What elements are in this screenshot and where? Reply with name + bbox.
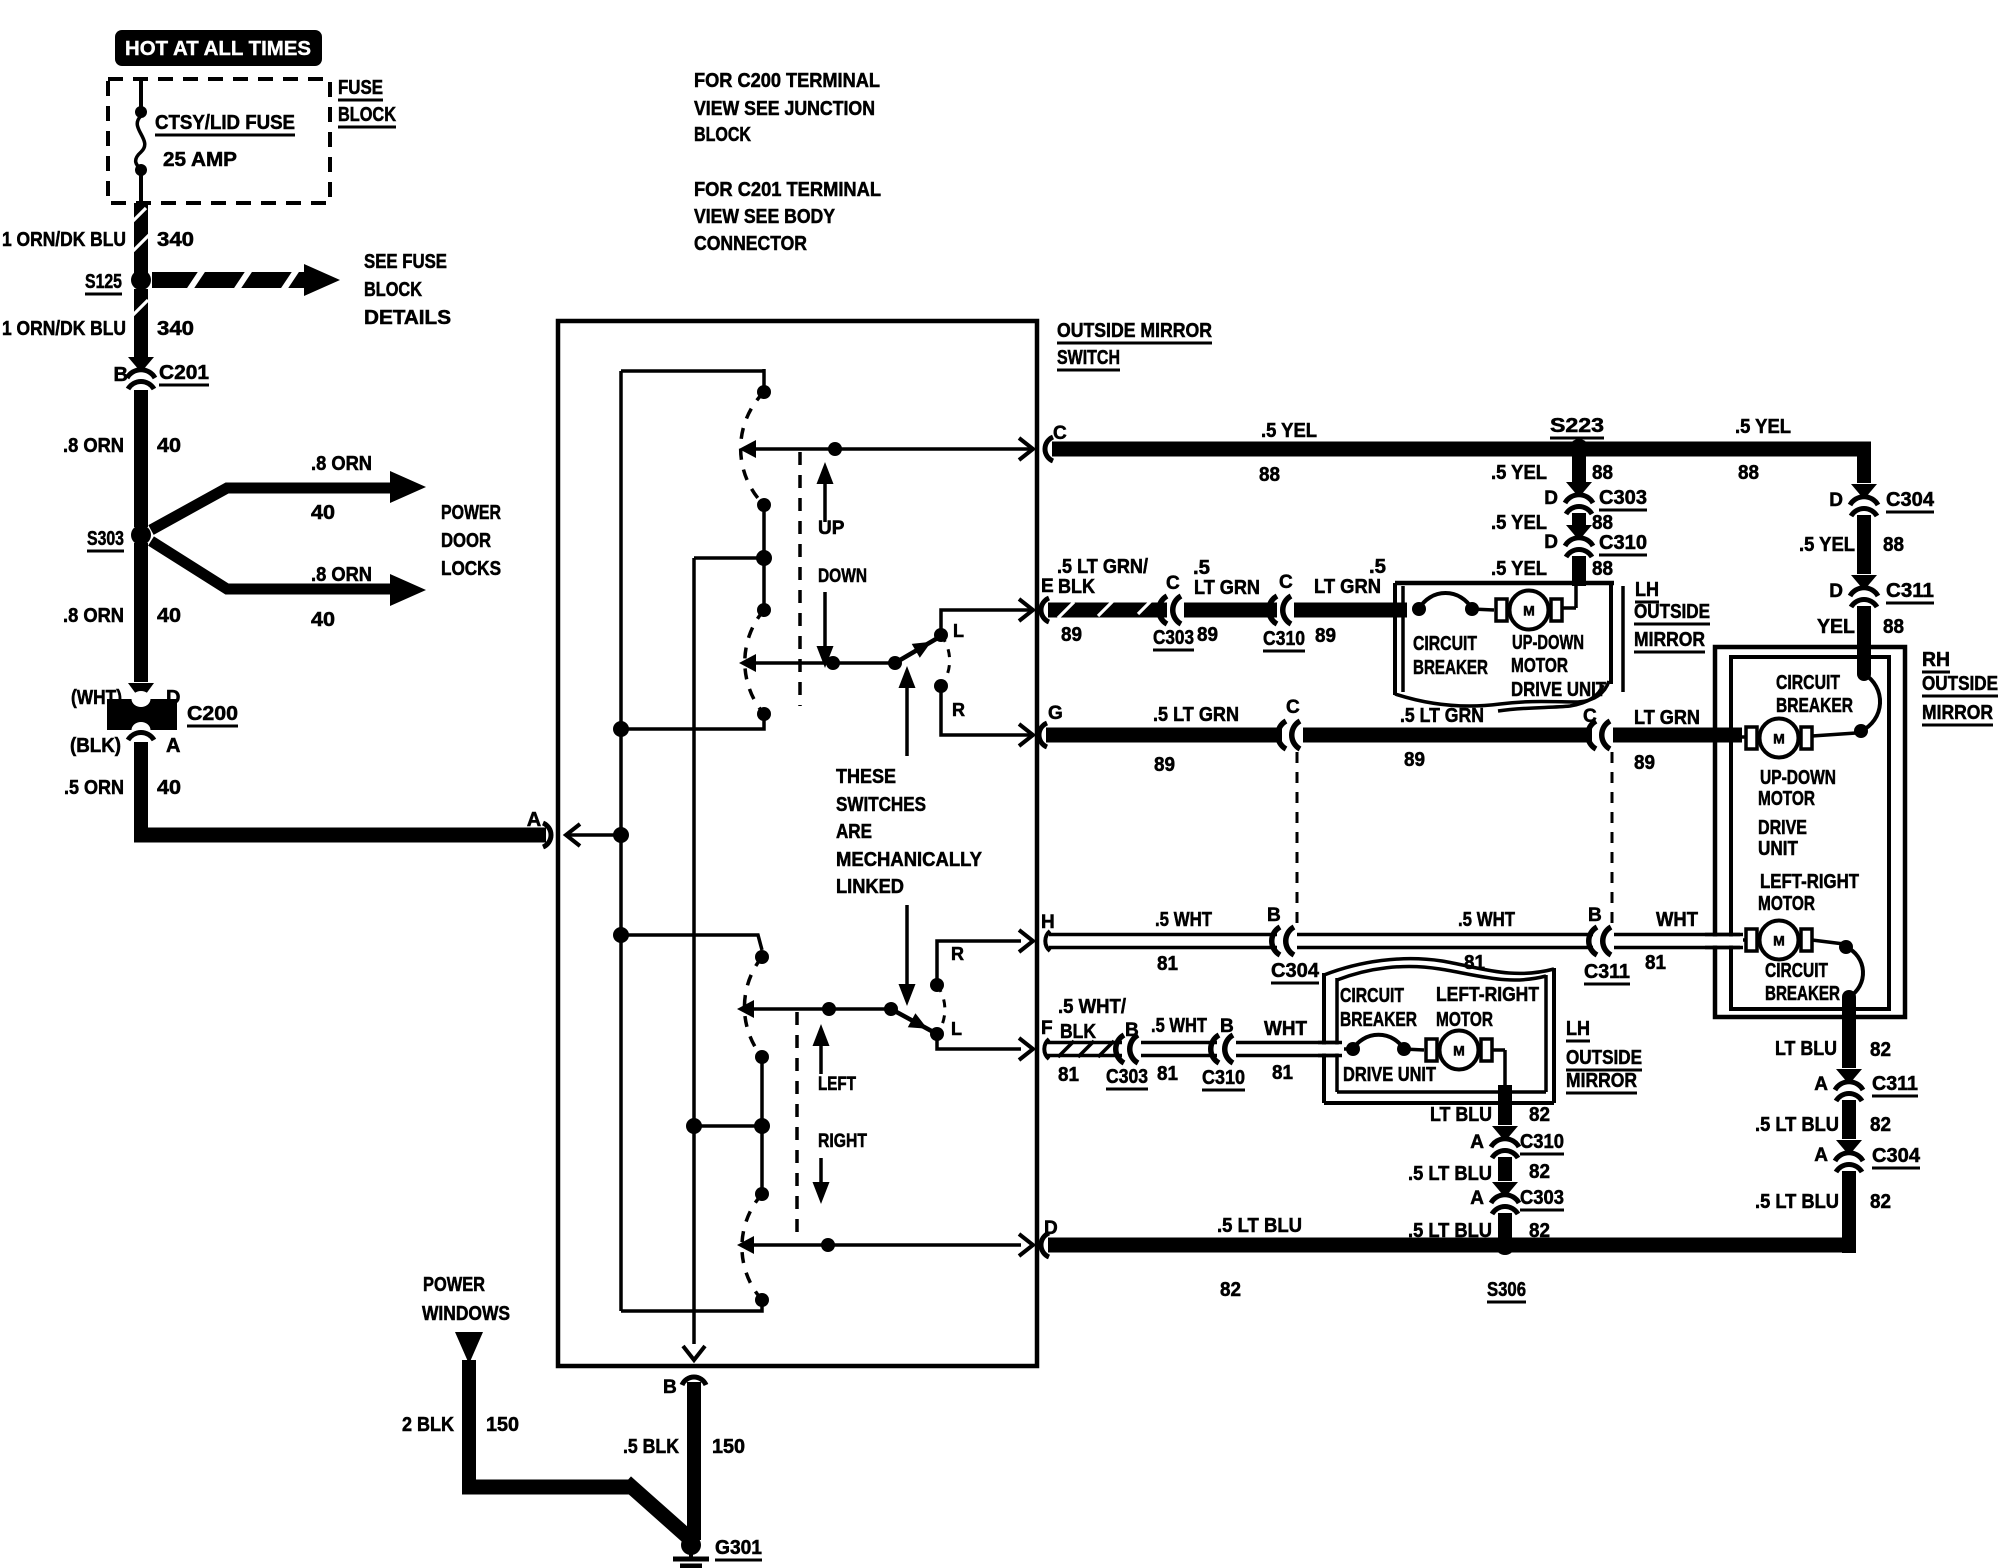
svg-text:.5 BLK: .5 BLK bbox=[623, 1436, 679, 1458]
svg-text:BREAKER: BREAKER bbox=[1413, 657, 1488, 679]
svg-text:82: 82 bbox=[1529, 1104, 1550, 1126]
svg-text:BREAKER: BREAKER bbox=[1776, 695, 1853, 717]
svg-text:RH: RH bbox=[1922, 649, 1950, 671]
connector C304 terminal C on G row bbox=[1278, 721, 1286, 749]
svg-text:VIEW SEE JUNCTION: VIEW SEE JUNCTION bbox=[694, 98, 875, 120]
svg-text:.8 ORN: .8 ORN bbox=[63, 605, 124, 627]
wire .5 LT GRN C304 to C311 on G row bbox=[1303, 728, 1592, 743]
svg-text:.5 YEL: .5 YEL bbox=[1491, 512, 1547, 534]
svg-text:M: M bbox=[1773, 933, 1785, 949]
svg-text:G301: G301 bbox=[715, 1537, 762, 1559]
svg-text:MOTOR: MOTOR bbox=[1436, 1009, 1493, 1031]
wire .5 YEL C304 to C311 bbox=[1857, 515, 1871, 574]
svg-text:B: B bbox=[1220, 1016, 1234, 1037]
switch left-right wiper travel arc upper bbox=[744, 957, 762, 1057]
svg-text:D: D bbox=[1544, 532, 1558, 553]
LH up-down motor M bbox=[1496, 599, 1507, 621]
svg-text:88: 88 bbox=[1883, 616, 1904, 638]
svg-text:M: M bbox=[1773, 731, 1785, 747]
wire .5 LT GRN C303 to C310 bbox=[1184, 603, 1277, 618]
RH up-down motor M bbox=[1746, 727, 1757, 749]
power feed label HOT AT ALL TIMES bbox=[115, 30, 322, 66]
svg-text:L: L bbox=[951, 1019, 962, 1039]
svg-text:SWITCH: SWITCH bbox=[1057, 347, 1120, 369]
svg-text:C311: C311 bbox=[1872, 1073, 1918, 1095]
switch contact R upper section bbox=[941, 635, 950, 686]
svg-text:.5 WHT: .5 WHT bbox=[1458, 909, 1515, 931]
svg-text:R: R bbox=[951, 944, 964, 964]
svg-text:CONNECTOR: CONNECTOR bbox=[694, 233, 807, 255]
switch left-right wiper lever bbox=[737, 1000, 754, 1018]
connector C201 terminal B bbox=[128, 357, 154, 370]
svg-text:RIGHT: RIGHT bbox=[818, 1131, 867, 1152]
connector C311 terminal D vertical right bbox=[1851, 575, 1877, 588]
svg-text:LOCKS: LOCKS bbox=[441, 558, 501, 580]
svg-text:LINKED: LINKED bbox=[836, 876, 904, 898]
switch up-down wiper travel arc upper bbox=[741, 392, 764, 505]
svg-text:A: A bbox=[166, 735, 180, 757]
svg-text:40: 40 bbox=[311, 502, 335, 524]
svg-text:HOT AT ALL TIMES: HOT AT ALL TIMES bbox=[125, 38, 311, 60]
RH outside mirror drive unit box bbox=[1715, 647, 1905, 1017]
svg-text:89: 89 bbox=[1315, 625, 1336, 647]
svg-text:1 ORN/DK BLU: 1 ORN/DK BLU bbox=[2, 318, 126, 340]
svg-text:MIRROR: MIRROR bbox=[1922, 702, 1993, 724]
svg-text:LT BLU: LT BLU bbox=[1775, 1038, 1837, 1060]
svg-text:LEFT: LEFT bbox=[818, 1074, 856, 1095]
svg-text:H: H bbox=[1041, 912, 1055, 933]
svg-text:81: 81 bbox=[1645, 952, 1666, 974]
splice S223 bbox=[1569, 439, 1589, 459]
svg-text:MECHANICALLY: MECHANICALLY bbox=[836, 849, 983, 871]
mechanical link dashes lower bbox=[795, 1012, 799, 1235]
wire LT GRN C311 to RH drive unit bbox=[1613, 728, 1742, 743]
svg-text:82: 82 bbox=[1220, 1279, 1241, 1301]
svg-text:.5 LT GRN: .5 LT GRN bbox=[1153, 704, 1239, 726]
svg-text:A: A bbox=[527, 809, 541, 831]
svg-text:(BLK): (BLK) bbox=[70, 735, 121, 757]
svg-text:B: B bbox=[1588, 905, 1602, 926]
svg-text:DRIVE UNIT: DRIVE UNIT bbox=[1511, 679, 1606, 701]
connector C311 terminal C on G row bbox=[1588, 721, 1596, 749]
connector C310 terminal D vertical bbox=[1566, 525, 1592, 538]
svg-text:.5 LT BLU: .5 LT BLU bbox=[1217, 1215, 1302, 1237]
svg-text:40: 40 bbox=[157, 435, 181, 457]
svg-text:C304: C304 bbox=[1886, 489, 1935, 511]
connector C311 terminal B on H row bbox=[1589, 927, 1597, 955]
svg-text:FOR C200 TERMINAL: FOR C200 TERMINAL bbox=[694, 70, 880, 92]
svg-text:LT GRN: LT GRN bbox=[1314, 576, 1381, 598]
svg-text:C310: C310 bbox=[1263, 628, 1305, 650]
fuse block dashed box bbox=[108, 79, 330, 203]
connector C304 terminal B on H row bbox=[1272, 927, 1280, 955]
wire .8 ORN 40 S303 to C200 bbox=[134, 543, 148, 682]
svg-text:UP-DOWN: UP-DOWN bbox=[1512, 632, 1584, 654]
connector C303 terminal D vertical bbox=[1566, 482, 1592, 495]
wire .5 YEL S223 drop to C303 bbox=[1572, 449, 1586, 482]
svg-text:150: 150 bbox=[486, 1414, 519, 1436]
switch up-down wiper lever bbox=[739, 654, 756, 672]
wire .5 LT BLU C303 to S306 bbox=[1498, 1213, 1512, 1245]
wire mid bus to left-right mid contact bbox=[694, 1124, 762, 1128]
connector C303 terminal C bbox=[1159, 596, 1167, 624]
svg-text:C311: C311 bbox=[1584, 961, 1630, 983]
wire .5 LT GRN/BLK terminal E to C303 bbox=[1041, 598, 1049, 622]
wire .5 WHT C304 to C311 on H row bbox=[1297, 933, 1593, 937]
svg-text:YEL: YEL bbox=[1817, 616, 1855, 638]
wire LT BLU RH drive unit to C311 bbox=[1842, 997, 1856, 1068]
RH left-right motor M bbox=[1746, 929, 1757, 951]
svg-text:82: 82 bbox=[1529, 1161, 1550, 1183]
svg-text:D: D bbox=[1829, 490, 1843, 511]
wire 1 ORN/DK BLU 340 S125 to C201 bbox=[134, 289, 148, 357]
mechanically linked pointer arrow lower bbox=[905, 905, 909, 998]
svg-text:UNIT: UNIT bbox=[1758, 838, 1798, 860]
splice S303 bbox=[131, 525, 151, 545]
svg-text:MOTOR: MOTOR bbox=[1758, 788, 1815, 810]
svg-text:.5 LT BLU: .5 LT BLU bbox=[1408, 1163, 1492, 1185]
wire .5 WHT/BLK terminal F to C303 bbox=[1044, 1039, 1049, 1059]
svg-text:BLOCK: BLOCK bbox=[364, 279, 422, 301]
wire L contact to terminal F bbox=[937, 1034, 1021, 1049]
switch left-right fixed contact top bbox=[755, 950, 769, 964]
svg-text:81: 81 bbox=[1058, 1064, 1079, 1086]
RH circuit breaker upper bbox=[1857, 667, 1871, 681]
wire WHT C311 to RH drive unit bbox=[1614, 933, 1740, 937]
svg-text:BLK: BLK bbox=[1058, 576, 1095, 598]
svg-text:.5: .5 bbox=[1193, 557, 1210, 579]
wire .5 LT BLU C304 to D row corner bbox=[1842, 1171, 1856, 1253]
connector C303 terminal A vertical bbox=[1492, 1182, 1518, 1195]
wire LT BLU LH drive unit to C310 bbox=[1498, 1085, 1512, 1125]
wire .5 LT BLU terminal D to S306 bbox=[1041, 1233, 1049, 1257]
svg-text:SWITCHES: SWITCHES bbox=[836, 794, 926, 816]
svg-text:G: G bbox=[1048, 703, 1063, 724]
svg-text:POWER: POWER bbox=[441, 502, 501, 524]
svg-text:POWER: POWER bbox=[423, 1274, 485, 1296]
mechanical link dashes upper bbox=[798, 452, 802, 706]
LH left-right circuit breaker bbox=[1346, 1042, 1360, 1056]
svg-text:.5: .5 bbox=[1369, 556, 1386, 578]
svg-text:S223: S223 bbox=[1550, 415, 1604, 437]
dashed arrow SEE FUSE BLOCK DETAILS bbox=[152, 272, 305, 288]
wire .8 ORN 40 C201 to S303 bbox=[134, 390, 148, 527]
svg-text:LEFT-RIGHT: LEFT-RIGHT bbox=[1760, 871, 1859, 893]
svg-text:DRIVE: DRIVE bbox=[1758, 817, 1807, 839]
svg-text:C303: C303 bbox=[1599, 487, 1647, 509]
svg-text:DOOR: DOOR bbox=[441, 530, 491, 552]
switch contact R lower section bbox=[930, 978, 944, 992]
svg-text:MIRROR: MIRROR bbox=[1566, 1070, 1637, 1092]
svg-text:WHT: WHT bbox=[1656, 909, 1698, 931]
svg-text:LH: LH bbox=[1566, 1018, 1590, 1040]
switch up-down contact lower bbox=[757, 603, 771, 617]
svg-text:25 AMP: 25 AMP bbox=[163, 149, 237, 171]
wire WHT passing through RH box edges bbox=[1705, 937, 1743, 946]
svg-text:E: E bbox=[1041, 576, 1054, 597]
svg-text:40: 40 bbox=[157, 777, 181, 799]
switch wiper to terminal C bbox=[739, 440, 756, 458]
arrow to power door locks upper bbox=[151, 488, 392, 530]
svg-text:.5 ORN: .5 ORN bbox=[64, 777, 124, 799]
LH left-right motor M bbox=[1426, 1039, 1437, 1061]
svg-text:BLK: BLK bbox=[1060, 1021, 1096, 1043]
arrow UP bbox=[823, 470, 827, 522]
svg-text:88: 88 bbox=[1592, 462, 1613, 484]
wire .5 LT BLU C311 to C304 bbox=[1842, 1100, 1856, 1139]
svg-text:B: B bbox=[1125, 1020, 1139, 1041]
svg-text:88: 88 bbox=[1592, 558, 1613, 580]
wire WHT passing through LH left-right box edges bbox=[1318, 1045, 1344, 1054]
svg-text:LT GRN: LT GRN bbox=[1634, 707, 1700, 729]
wire WHT C310 to LH left-right drive unit bbox=[1236, 1041, 1338, 1045]
svg-text:A: A bbox=[1814, 1074, 1828, 1095]
svg-text:82: 82 bbox=[1870, 1039, 1891, 1061]
power windows feed triangle bbox=[455, 1332, 483, 1364]
svg-text:B: B bbox=[663, 1377, 677, 1398]
wire left bus to left-right section top contact bbox=[613, 927, 629, 943]
svg-text:1 ORN/DK BLU: 1 ORN/DK BLU bbox=[2, 229, 126, 251]
svg-text:89: 89 bbox=[1197, 624, 1218, 646]
wire R contact to terminal G bbox=[941, 686, 1031, 735]
svg-text:89: 89 bbox=[1404, 749, 1425, 771]
svg-text:C310: C310 bbox=[1202, 1067, 1245, 1089]
wire internal left bus bbox=[619, 371, 623, 1311]
svg-text:C200: C200 bbox=[187, 703, 238, 725]
switch up-down contact mid bbox=[757, 498, 771, 512]
svg-text:C: C bbox=[1286, 697, 1300, 718]
connector C310 terminal C bbox=[1269, 596, 1277, 624]
connector link dashes C311 bbox=[1611, 752, 1614, 926]
svg-text:BLOCK: BLOCK bbox=[694, 124, 751, 146]
svg-text:C: C bbox=[1279, 572, 1293, 593]
svg-text:M: M bbox=[1453, 1043, 1465, 1059]
svg-text:DRIVE UNIT: DRIVE UNIT bbox=[1343, 1064, 1436, 1086]
svg-text:WHT: WHT bbox=[1264, 1018, 1307, 1040]
connector C311 terminal A vertical bbox=[1836, 1069, 1862, 1082]
svg-text:C303: C303 bbox=[1520, 1187, 1564, 1209]
svg-text:BLOCK: BLOCK bbox=[338, 104, 396, 126]
arrow to power door locks lower bbox=[151, 541, 392, 589]
switch up-down contact bottom return bbox=[757, 707, 771, 721]
svg-text:.5 LT BLU: .5 LT BLU bbox=[1755, 1191, 1839, 1213]
svg-text:CTSY/LID FUSE: CTSY/LID FUSE bbox=[155, 112, 295, 134]
svg-text:SEE FUSE: SEE FUSE bbox=[364, 251, 447, 273]
svg-text:A: A bbox=[1470, 1132, 1484, 1153]
svg-text:LH: LH bbox=[1635, 579, 1659, 601]
connector C310 terminal A vertical bbox=[1492, 1126, 1518, 1139]
svg-text:81: 81 bbox=[1157, 953, 1178, 975]
svg-text:81: 81 bbox=[1272, 1062, 1293, 1084]
fuse CTSY/LID FUSE 25 AMP bbox=[139, 79, 143, 110]
svg-text:82: 82 bbox=[1870, 1114, 1891, 1136]
wire .5 YEL terminal C to S223 bbox=[1045, 437, 1053, 461]
svg-text:81: 81 bbox=[1157, 1063, 1178, 1085]
svg-text:BREAKER: BREAKER bbox=[1340, 1009, 1417, 1031]
svg-text:BREAKER: BREAKER bbox=[1765, 983, 1840, 1005]
svg-text:M: M bbox=[1523, 603, 1535, 619]
svg-text:.5 LT GRN/: .5 LT GRN/ bbox=[1057, 556, 1148, 578]
svg-text:.5 LT BLU: .5 LT BLU bbox=[1755, 1114, 1839, 1136]
svg-text:82: 82 bbox=[1870, 1191, 1891, 1213]
svg-text:LT GRN: LT GRN bbox=[1194, 577, 1260, 599]
svg-text:89: 89 bbox=[1061, 624, 1082, 646]
wire .5 WHT C303 to C310 on F row bbox=[1141, 1041, 1217, 1045]
LH left-right motor drive unit box bbox=[1322, 973, 1326, 1103]
svg-text:OUTSIDE MIRROR: OUTSIDE MIRROR bbox=[1057, 320, 1212, 342]
svg-text:C311: C311 bbox=[1886, 580, 1934, 602]
svg-text:.5 YEL: .5 YEL bbox=[1491, 558, 1547, 580]
connector C200 bbox=[128, 683, 154, 698]
switch left-right lower contact bbox=[755, 1187, 769, 1201]
RH circuit breaker lower bbox=[1839, 940, 1853, 954]
svg-text:MOTOR: MOTOR bbox=[1758, 893, 1815, 915]
wire 2 BLK power windows to G301 bbox=[462, 1360, 476, 1494]
outside mirror switch box bbox=[558, 321, 1037, 1366]
switch up-down wiper travel arc lower bbox=[745, 610, 764, 714]
svg-text:.5 YEL: .5 YEL bbox=[1491, 462, 1547, 484]
svg-text:.8 ORN: .8 ORN bbox=[63, 435, 124, 457]
wire internal top feed bbox=[621, 369, 764, 373]
switch contact L upper section bbox=[934, 628, 948, 642]
svg-text:.8 ORN: .8 ORN bbox=[311, 564, 372, 586]
svg-text:R: R bbox=[952, 700, 965, 720]
svg-text:C: C bbox=[1166, 573, 1180, 594]
svg-text:88: 88 bbox=[1883, 534, 1904, 556]
svg-text:THESE: THESE bbox=[836, 766, 896, 788]
svg-text:DETAILS: DETAILS bbox=[364, 307, 451, 329]
connector C304 terminal D vertical right bbox=[1851, 484, 1877, 497]
svg-text:OUTSIDE: OUTSIDE bbox=[1566, 1047, 1642, 1069]
svg-text:CIRCUIT: CIRCUIT bbox=[1413, 633, 1477, 655]
arrow LEFT bbox=[819, 1032, 823, 1074]
svg-text:LT BLU: LT BLU bbox=[1430, 1104, 1492, 1126]
svg-text:88: 88 bbox=[1259, 464, 1280, 486]
svg-text:ARE: ARE bbox=[836, 821, 872, 843]
connector link dashes C304 bbox=[1296, 752, 1299, 926]
svg-text:MIRROR: MIRROR bbox=[1634, 629, 1705, 651]
svg-text:C201: C201 bbox=[159, 362, 209, 384]
mechanically linked pointer arrow upper bbox=[905, 674, 909, 756]
svg-text:B: B bbox=[1267, 905, 1281, 926]
wire .5 LT BLU C310 to C303 bbox=[1498, 1157, 1512, 1181]
svg-text:UP: UP bbox=[818, 518, 845, 539]
switch left-right mid contact bbox=[755, 1050, 769, 1064]
svg-text:.8 ORN: .8 ORN bbox=[311, 453, 372, 475]
LH up-down circuit breaker bbox=[1412, 602, 1426, 616]
wire contact mid to mid bus bbox=[694, 556, 764, 560]
switch wiper to terminal D bbox=[737, 1236, 754, 1254]
svg-text:C: C bbox=[1583, 706, 1597, 727]
wire .5 LT GRN terminal G to C304 bbox=[1039, 723, 1047, 747]
svg-text:C304: C304 bbox=[1271, 960, 1320, 982]
svg-text:C304: C304 bbox=[1872, 1145, 1921, 1167]
svg-text:S125: S125 bbox=[85, 271, 122, 293]
svg-text:L: L bbox=[953, 621, 964, 641]
wire 1 ORN/DK BLU 340 fuse to S125 bbox=[134, 203, 148, 273]
svg-text:C310: C310 bbox=[1599, 532, 1647, 554]
splice S125 bbox=[131, 270, 151, 290]
ground G301 bbox=[681, 1535, 701, 1555]
svg-text:CIRCUIT: CIRCUIT bbox=[1765, 960, 1828, 982]
svg-text:OUTSIDE: OUTSIDE bbox=[1634, 601, 1710, 623]
switch up-down section fixed contact top bbox=[757, 385, 771, 399]
svg-text:DOWN: DOWN bbox=[818, 566, 867, 587]
wire .5 YEL C303 to C310 bbox=[1572, 513, 1586, 525]
connector C310 terminal B on F row bbox=[1211, 1035, 1219, 1063]
wire terminal A to left bus bbox=[613, 827, 629, 843]
svg-text:D: D bbox=[1544, 488, 1558, 509]
wire .5 YEL C310 to LH mirror bbox=[1572, 556, 1586, 586]
svg-text:C: C bbox=[1053, 423, 1067, 444]
svg-text:B: B bbox=[114, 364, 128, 386]
svg-text:89: 89 bbox=[1154, 754, 1175, 776]
svg-text:S303: S303 bbox=[87, 528, 124, 550]
wire .5 ORN 40 C200 to switch terminal A bbox=[128, 732, 154, 740]
svg-text:.5 YEL: .5 YEL bbox=[1735, 416, 1791, 438]
svg-text:88: 88 bbox=[1592, 512, 1613, 534]
wire .5 LT BLU S306 to RH drop bbox=[1505, 1238, 1856, 1253]
svg-text:C303: C303 bbox=[1106, 1066, 1148, 1088]
svg-text:2 BLK: 2 BLK bbox=[402, 1414, 454, 1436]
svg-text:OUTSIDE: OUTSIDE bbox=[1922, 673, 1998, 695]
svg-text:S306: S306 bbox=[1487, 1279, 1526, 1301]
wire .5 WHT terminal H to C304 bbox=[1045, 931, 1050, 951]
svg-text:89: 89 bbox=[1634, 752, 1655, 774]
svg-text:40: 40 bbox=[157, 605, 181, 627]
svg-text:FUSE: FUSE bbox=[338, 77, 383, 99]
wire .5 BLK terminal B to G301 bbox=[682, 1377, 706, 1385]
wire YEL C311 to RH mirror bbox=[1857, 606, 1871, 674]
svg-text:FOR C201 TERMINAL: FOR C201 TERMINAL bbox=[694, 179, 881, 201]
wire .5 YEL S223 to corner bbox=[1579, 442, 1871, 457]
svg-text:F: F bbox=[1041, 1018, 1053, 1039]
wire L contact to terminal E bbox=[941, 610, 1031, 635]
svg-text:UP-DOWN: UP-DOWN bbox=[1760, 767, 1836, 789]
wire mid bus to terminal B bbox=[683, 1346, 705, 1360]
wire .5 YEL right drop to C304 bbox=[1857, 442, 1871, 483]
svg-text:CIRCUIT: CIRCUIT bbox=[1340, 985, 1404, 1007]
svg-text:WINDOWS: WINDOWS bbox=[422, 1303, 510, 1325]
svg-text:340: 340 bbox=[157, 318, 194, 340]
switch left-right bottom return bbox=[755, 1293, 769, 1307]
svg-text:150: 150 bbox=[712, 1436, 745, 1458]
svg-text:88: 88 bbox=[1738, 462, 1759, 484]
svg-text:.5 WHT: .5 WHT bbox=[1151, 1015, 1207, 1037]
LH up-down motor drive unit box bbox=[1393, 583, 1397, 695]
svg-text:340: 340 bbox=[157, 229, 194, 251]
svg-text:40: 40 bbox=[311, 609, 335, 631]
svg-text:.5 YEL: .5 YEL bbox=[1799, 534, 1855, 556]
svg-text:VIEW SEE BODY: VIEW SEE BODY bbox=[694, 206, 836, 228]
svg-text:.5 LT GRN: .5 LT GRN bbox=[1400, 705, 1484, 727]
wire R contact to terminal H bbox=[937, 941, 1021, 985]
svg-text:A: A bbox=[1470, 1188, 1484, 1209]
svg-text:LEFT-RIGHT: LEFT-RIGHT bbox=[1436, 984, 1539, 1006]
wire .5 LT GRN C310 to LH drive unit bbox=[1294, 603, 1407, 618]
svg-text:.5 YEL: .5 YEL bbox=[1261, 420, 1317, 442]
svg-text:MOTOR: MOTOR bbox=[1511, 655, 1568, 677]
svg-text:D: D bbox=[1829, 581, 1843, 602]
splice S306 bbox=[1495, 1235, 1515, 1255]
switch contact L lower section bbox=[937, 985, 945, 1034]
svg-text:C303: C303 bbox=[1153, 627, 1194, 649]
wire internal mid bus bbox=[692, 558, 696, 1344]
connector C304 terminal A vertical bbox=[1836, 1140, 1862, 1153]
svg-text:A: A bbox=[1814, 1145, 1828, 1166]
svg-text:.5 WHT: .5 WHT bbox=[1155, 909, 1212, 931]
svg-text:.5 WHT/: .5 WHT/ bbox=[1058, 996, 1126, 1018]
